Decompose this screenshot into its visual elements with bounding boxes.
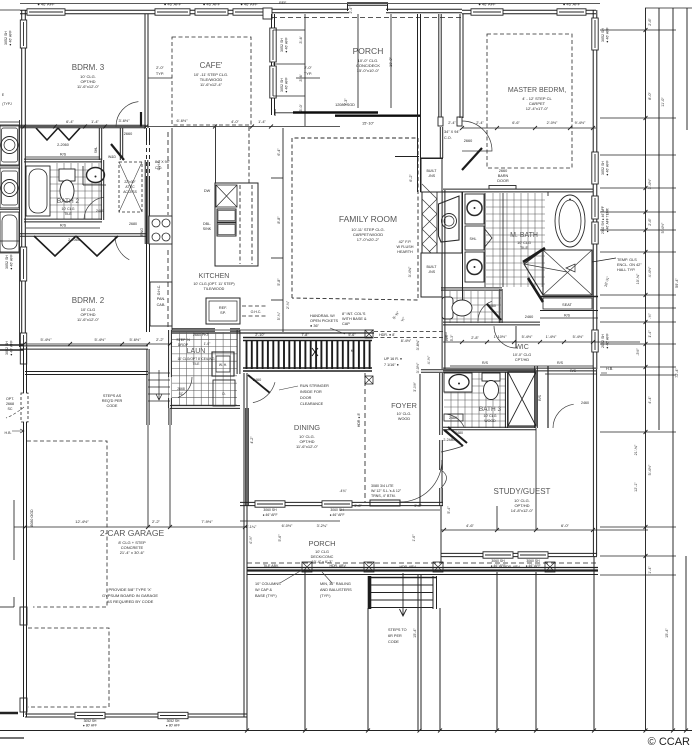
svg-text:15'-4": 15'-4" (413, 628, 417, 638)
svg-text:11'-6"x12'-0": 11'-6"x12'-0" (77, 84, 100, 89)
svg-text:6'-0½": 6'-0½" (282, 524, 293, 528)
room LAUN (172, 332, 237, 406)
hall door bdrm2 (115, 236, 129, 260)
svg-text:● 46' AFF: ● 46' AFF (10, 253, 14, 269)
svg-text:3'-4¾": 3'-4¾" (408, 266, 412, 277)
wall bdrm2 bottom (20, 346, 148, 349)
room BATH 2 (50, 163, 102, 219)
svg-text:© CCAR: © CCAR (648, 736, 690, 747)
header dashed above stair/bath hall (374, 331, 443, 333)
exterior wall right (593, 10, 597, 369)
svg-text:SHL: SHL (94, 147, 98, 154)
window cafe right 2 (270, 66, 276, 98)
svg-text:O.H.C.: O.H.C. (157, 160, 161, 170)
svg-text:● 36": ● 36" (310, 324, 320, 328)
wic door (494, 326, 516, 348)
svg-text:4'-4": 4'-4" (648, 396, 652, 404)
svg-text:DECK/CONC: DECK/CONC (311, 555, 334, 559)
wall kitchen left upper (147, 128, 150, 141)
svg-text:TILE: TILE (193, 362, 201, 366)
window right mbath 1 (592, 196, 598, 219)
svg-text:HANDRAIL W/: HANDRAIL W/ (310, 314, 336, 318)
fireplace (422, 192, 462, 253)
svg-text:-3½": -3½" (636, 348, 640, 356)
svg-text:6'-6½": 6'-6½" (177, 118, 189, 123)
svg-text:3052 SH: 3052 SH (280, 78, 284, 92)
range (149, 216, 172, 244)
svg-text:4'-½": 4'-½" (427, 355, 431, 364)
svg-text:● 46' AFF: ● 46' AFF (478, 2, 496, 7)
wall bath2 bottom (24, 219, 102, 222)
svg-text:10' CLG.: 10' CLG. (397, 412, 412, 416)
wall bath3 right (535, 366, 538, 428)
svg-text:10" COLUMNS: 10" COLUMNS (255, 582, 281, 586)
svg-text:RUN STRINGER: RUN STRINGER (300, 384, 329, 388)
svg-text:2'-0½": 2'-0½" (547, 121, 558, 125)
svg-text:WIC: WIC (515, 344, 529, 351)
stairwell walls to garage (147, 349, 149, 425)
porch interior dim (357, 14, 359, 108)
svg-text:12'-4"x17'-0": 12'-4"x17'-0" (526, 106, 549, 111)
svg-text:W FLUSH: W FLUSH (396, 245, 413, 249)
garage door jog (20, 607, 27, 625)
svg-text:OPT.: OPT. (6, 397, 14, 401)
wall cafe right (272, 14, 275, 115)
wall laundry bottom (170, 406, 240, 409)
svg-text:WITH BASE &: WITH BASE & (342, 317, 367, 321)
garage window 2 (158, 712, 188, 718)
svg-text:STEP 'N: STEP 'N (176, 338, 190, 342)
wall garage bottom (25, 714, 247, 717)
svg-text:10' CLG: 10' CLG (61, 207, 74, 211)
svg-text:CODE: CODE (388, 640, 399, 644)
vestibule walls (439, 14, 441, 117)
svg-text:2660: 2660 (464, 139, 472, 143)
wall dining left (246, 408, 249, 506)
svg-text:2-2060: 2-2060 (57, 143, 69, 147)
svg-text:21'-¾": 21'-¾" (634, 444, 638, 455)
exterior wall left (22, 10, 26, 347)
window right master (592, 18, 598, 50)
svg-text:-4¾": -4¾" (339, 489, 347, 493)
svg-text:● 46" AFF: ● 46" AFF (329, 513, 344, 517)
svg-text:15'-10": 15'-10" (362, 121, 375, 126)
bottom line ticks (245, 729, 249, 733)
wall laundry right (237, 330, 240, 374)
svg-text:3'-6½": 3'-6½" (119, 118, 131, 123)
mbath shower (543, 250, 592, 295)
svg-text:3'-2¾": 3'-2¾" (317, 524, 328, 528)
svg-text:STEPS TO: STEPS TO (388, 628, 407, 632)
svg-text:● 46' AFF: ● 46' AFF (606, 159, 610, 175)
svg-text:5'-3": 5'-3" (450, 334, 454, 341)
svg-text:5'-6½": 5'-6½" (130, 337, 142, 342)
svg-text:2'-4": 2'-4" (349, 6, 353, 14)
svg-text:8080 OGD: 8080 OGD (30, 509, 34, 527)
wall garage right (244, 373, 247, 717)
svg-text:SP.: SP. (220, 311, 226, 315)
porch steps (368, 576, 372, 609)
svg-text:3052 SH: 3052 SH (4, 31, 8, 45)
svg-text:11'-6"x12'-0": 11'-6"x12'-0" (296, 444, 319, 449)
svg-text:4'-2": 4'-2" (250, 436, 254, 444)
bath2 door (84, 197, 104, 219)
opt door garage (21, 393, 28, 422)
front wall dining (240, 502, 443, 505)
svg-text:SINK: SINK (203, 227, 212, 231)
svg-text:5'-4½": 5'-4½" (95, 337, 107, 342)
svg-text:ACCESS: ACCESS (123, 190, 137, 194)
svg-text:R/S: R/S (482, 361, 489, 365)
party wall line (19, 120, 21, 347)
porch right wall (418, 14, 421, 192)
svg-text:TRNS, 4" BTM.: TRNS, 4" BTM. (371, 494, 396, 498)
svg-text:● 46" AFF: ● 46" AFF (262, 513, 277, 517)
svg-text:UP 16 R. ●: UP 16 R. ● (384, 357, 402, 361)
porch front edge (247, 562, 598, 564)
sliding glass door family/porch (275, 112, 295, 114)
svg-text:HDR. ABV.: HDR. ABV. (400, 565, 417, 569)
svg-text:CAB.: CAB. (157, 303, 166, 307)
window left bdrm3 (20, 20, 26, 48)
svg-text:● 80' AFF: ● 80' AFF (166, 724, 180, 728)
svg-text:5'-¾": 5'-¾" (277, 311, 281, 320)
svg-text:5'-4½": 5'-4½" (661, 222, 665, 233)
svg-text:MIN, 36" RAILING: MIN, 36" RAILING (320, 582, 351, 586)
attic access (119, 162, 142, 212)
bath3 toilet (482, 373, 500, 381)
wall wic bottom (443, 368, 596, 371)
svg-text:2-2480: 2-2480 (443, 438, 454, 442)
svg-text:7'-8": 7'-8" (301, 333, 309, 337)
porch ceiling dashed (272, 17, 461, 19)
study window 2 (518, 552, 548, 558)
svg-text:O.H.C.: O.H.C. (251, 310, 262, 314)
kitchen island (215, 183, 258, 266)
svg-text:● 46' AFF: ● 46' AFF (37, 2, 55, 7)
svg-text:3'-0½": 3'-0½" (413, 381, 417, 391)
window 3050 SH (471, 9, 503, 15)
svg-text:PROVIDE 5/8" TYPE 'X': PROVIDE 5/8" TYPE 'X' (109, 587, 152, 592)
garage dashed ceiling lines (27, 441, 107, 607)
svg-text:2'-2": 2'-2" (156, 337, 164, 342)
master dashed ceiling (487, 34, 572, 168)
svg-text:1'-4": 1'-4" (91, 119, 99, 124)
built-ins lower (421, 253, 442, 297)
svg-text:REF.: REF. (279, 1, 287, 5)
svg-text:TILE ABV.: TILE ABV. (263, 564, 279, 568)
svg-text:R/S: R/S (564, 314, 571, 318)
svg-text:2480: 2480 (444, 332, 448, 340)
svg-text:21'-4" x 30'-6": 21'-4" x 30'-6" (120, 550, 145, 555)
svg-text:2'-0": 2'-0" (156, 65, 164, 70)
svg-text:3052 SH: 3052 SH (5, 255, 9, 269)
svg-text:DOOR: DOOR (497, 179, 509, 183)
wall bath2 top (24, 159, 102, 162)
svg-text:LAUN: LAUN (187, 348, 206, 355)
wall study bottom (441, 553, 597, 556)
svg-text:6'-6": 6'-6" (512, 121, 520, 125)
svg-text:DINING: DINING (294, 423, 320, 432)
svg-text:CLEARANCE: CLEARANCE (300, 402, 324, 406)
svg-text:● 46' AFF: ● 46' AFF (606, 332, 610, 348)
window cafe right 1 (270, 28, 276, 62)
svg-text:8'-8": 8'-8" (277, 216, 281, 224)
room BDRM 2 (26, 227, 100, 229)
svg-text:14'-8"x12'-0": 14'-8"x12'-0" (511, 508, 534, 513)
tub bath2 (26, 166, 50, 216)
svg-text:BUILT: BUILT (427, 265, 438, 269)
svg-text:SC: SC (8, 407, 13, 411)
dining window 2 (322, 501, 352, 507)
svg-text:15'-0"x10'-0": 15'-0"x10'-0" (357, 68, 380, 73)
window 3052 SH (195, 9, 228, 15)
svg-text:4'-0": 4'-0" (231, 119, 239, 124)
svg-text:INSIDE FOR: INSIDE FOR (300, 390, 322, 394)
svg-text:3'-0': 3'-0' (298, 104, 303, 111)
svg-text:FOYER: FOYER (391, 401, 417, 410)
svg-text:● 46' AFF: ● 46' AFF (563, 2, 581, 7)
svg-text:2052 SH ● 46' AFF: 2052 SH ● 46' AFF (601, 206, 605, 234)
svg-text:PORCH: PORCH (308, 539, 335, 548)
cafe dashed ceiling (172, 37, 251, 125)
svg-text:● 46' AFF: ● 46' AFF (10, 339, 14, 355)
svg-text:3060 SH: 3060 SH (526, 559, 540, 563)
svg-text:W. H.: W. H. (219, 363, 227, 367)
svg-text:W/ 12" S.L.'s & 12": W/ 12" S.L.'s & 12" (371, 489, 402, 493)
svg-text:PORCH: PORCH (353, 46, 384, 56)
toilet door (478, 301, 492, 321)
header dashed dining/foyer (364, 373, 366, 502)
svg-text:DBL.: DBL. (203, 222, 211, 226)
svg-text:2460: 2460 (581, 401, 589, 405)
svg-text:3052 SH: 3052 SH (280, 38, 284, 52)
svg-text:(TYP.): (TYP.) (320, 594, 331, 598)
svg-text:10' CLG.(OPT. 11' STEP): 10' CLG.(OPT. 11' STEP) (193, 282, 234, 286)
wall bdrm3/cafe (145, 14, 148, 128)
wall bdrm2 top (20, 234, 146, 236)
svg-text:72'-4": 72'-4" (675, 368, 679, 378)
svg-text:9'-4½": 9'-4½" (575, 121, 586, 125)
master entry door (462, 121, 492, 151)
svg-text:12'-1": 12'-1" (634, 482, 638, 492)
svg-text:1'-6": 1'-6" (412, 534, 416, 542)
svg-text:6'-2": 6'-2" (409, 174, 413, 182)
svg-text:AND BALUSTERS: AND BALUSTERS (320, 588, 352, 592)
svg-text:PAN.: PAN. (157, 297, 166, 301)
svg-text:12'-4½": 12'-4½" (75, 519, 89, 524)
wall garage top (25, 372, 148, 375)
seat (540, 296, 598, 298)
wall below mbath (443, 322, 540, 325)
svg-text:WOOD: WOOD (484, 419, 496, 423)
svg-text:DOOR: DOOR (300, 396, 312, 400)
svg-text:BARN: BARN (498, 174, 509, 178)
svg-text:FAMILY ROOM: FAMILY ROOM (339, 214, 397, 224)
svg-text:● 46' AFF TEMP.: ● 46' AFF TEMP. (606, 207, 610, 232)
svg-text:R/S: R/S (538, 394, 542, 400)
svg-text:2660 PKT: 2660 PKT (193, 333, 210, 337)
svg-text:11'-0": 11'-0" (661, 97, 665, 107)
svg-text:10'-0" CLG: 10'-0" CLG (513, 353, 532, 357)
svg-text:17'-0"x20'-2": 17'-0"x20'-2" (357, 237, 380, 242)
svg-text:2'-8": 2'-8" (471, 336, 479, 340)
svg-text:5'-4½": 5'-4½" (573, 335, 584, 339)
svg-text:HEARTH: HEARTH (397, 250, 413, 254)
svg-text:3052 SH: 3052 SH (601, 161, 605, 175)
svg-text:TEMP. GLS: TEMP. GLS (617, 258, 637, 262)
svg-text:1'-4": 1'-4" (648, 330, 652, 338)
window 3052 SH (233, 9, 265, 15)
barn door (489, 186, 516, 190)
svg-text:3052 SH: 3052 SH (167, 719, 180, 723)
svg-text:2660: 2660 (499, 169, 507, 173)
svg-text:TILE: TILE (520, 246, 528, 250)
WH (212, 352, 234, 376)
svg-text:DW: DW (204, 189, 211, 193)
window right mbath 2 (592, 222, 598, 244)
svg-text:CAP: CAP (342, 322, 350, 326)
exterior wall top (20, 10, 271, 13)
svg-text:1'-4": 1'-4" (648, 566, 652, 574)
svg-text:BUILT: BUILT (427, 169, 438, 173)
svg-text:3'-6': 3'-6' (298, 74, 303, 81)
door bdrm3 (116, 102, 138, 127)
closet right wall (99, 128, 101, 160)
svg-text:2'-4": 2'-4" (476, 121, 484, 125)
svg-text:BATH 3: BATH 3 (479, 406, 502, 413)
svg-text:3'-4½": 3'-4½" (648, 178, 652, 189)
svg-text:● 46' AFF: ● 46' AFF (164, 2, 182, 7)
svg-text:R/S: R/S (570, 369, 577, 373)
neighbor dryer (0, 168, 19, 208)
mbath vanity (462, 192, 464, 300)
window 3052 SH (155, 9, 190, 15)
svg-text:6'-4": 6'-4" (66, 119, 74, 124)
study window 1 (483, 552, 513, 558)
study corner doors (444, 430, 463, 446)
room FAMILY ROOM (292, 138, 418, 300)
svg-text:10' CLG: 10' CLG (483, 414, 496, 418)
window right wic (592, 330, 598, 352)
bath3 shower (508, 372, 536, 426)
svg-text:RNG: RNG (140, 228, 144, 236)
svg-text:-INS: -INS (428, 270, 436, 274)
closet door (553, 404, 574, 428)
svg-text:BDRM. 2: BDRM. 2 (72, 296, 105, 305)
wall foyer right upper (440, 373, 443, 435)
svg-text:2680: 2680 (129, 222, 137, 226)
svg-text:10' CLG/OPT 8' CEILING: 10' CLG/OPT 8' CEILING (177, 357, 215, 361)
svg-text:2660: 2660 (124, 132, 132, 136)
svg-text:8'-4½": 8'-4½" (401, 339, 412, 343)
wall foyer right lower (440, 488, 443, 506)
svg-text:6'-4": 6'-4" (277, 148, 281, 156)
svg-text:4'-½": 4'-½" (249, 535, 253, 544)
svg-text:KITCHEN: KITCHEN (199, 273, 230, 280)
svg-text:2660: 2660 (488, 304, 496, 308)
svg-text:R/S: R/S (60, 224, 67, 228)
svg-text:42" F.P.: 42" F.P. (399, 240, 412, 244)
porch bay bump (347, 3, 388, 5)
svg-text:R/S: R/S (557, 361, 564, 365)
svg-text:(TYPJ: (TYPJ (2, 102, 12, 106)
svg-text:3060 SH: 3060 SH (330, 508, 344, 512)
front door (370, 500, 400, 506)
svg-text:10' CLG: 10' CLG (517, 241, 531, 245)
svg-text:● 46' AFF: ● 46' AFF (240, 2, 258, 7)
svg-text:● 46' AFF: ● 46' AFF (203, 2, 221, 7)
mbath tub (555, 195, 585, 247)
stair edge reference line (419, 374, 421, 506)
svg-text:REQ'D PER: REQ'D PER (102, 399, 123, 403)
svg-text:2'-¾": 2'-¾" (286, 300, 290, 309)
svg-text:10'-0": 10'-0" (388, 56, 393, 67)
svg-text:15'-4": 15'-4" (665, 628, 669, 638)
svg-text:4'-6": 4'-6" (466, 523, 475, 528)
wall study right (593, 369, 596, 556)
cafe corner jog (263, 8, 272, 19)
svg-text:AS REQUIRED BY CODE: AS REQUIRED BY CODE (107, 599, 154, 604)
svg-text:H.B.: H.B. (5, 431, 12, 435)
svg-text:SHL: SHL (470, 237, 477, 241)
firebox (439, 196, 460, 242)
mbath tile (486, 193, 545, 287)
svg-text:2'-10": 2'-10" (255, 333, 265, 337)
svg-text:D.: D. (222, 392, 226, 396)
svg-text:5'-4": 5'-4" (447, 506, 451, 514)
svg-text:2'-6": 2'-6" (648, 18, 652, 26)
svg-text:8" INT. COL'S: 8" INT. COL'S (342, 312, 366, 316)
svg-text:22"x30": 22"x30" (124, 180, 136, 184)
wall garage left (24, 347, 27, 717)
svg-text:HALL TYP.: HALL TYP. (617, 268, 635, 272)
wall bdrm3 bottom (20, 125, 146, 127)
garage dim row (14, 526, 247, 528)
window 3052 SH (27, 9, 65, 15)
svg-text:● 80' AFF: ● 80' AFF (83, 724, 97, 728)
svg-text:ENCL. ON 42": ENCL. ON 42" (617, 263, 642, 267)
svg-text:6'-0": 6'-0" (561, 523, 570, 528)
svg-text:2'-2": 2'-2" (152, 519, 161, 524)
svg-text:3080 3/4 LITE: 3080 3/4 LITE (371, 484, 394, 488)
svg-text:3060 SH: 3060 SH (491, 559, 505, 563)
window left bdrm2 b (20, 333, 26, 364)
svg-text:SEAT: SEAT (562, 303, 572, 307)
top dimension line (20, 3, 600, 5)
svg-text:HDR. ABV.: HDR. ABV. (504, 565, 521, 569)
svg-text:3'-8¾": 3'-8¾" (416, 339, 420, 350)
svg-text:2480: 2480 (449, 416, 457, 420)
closet bdrm3 bifold doors 2-2060 (36, 128, 80, 140)
svg-text:BASE (TYP.): BASE (TYP.) (255, 594, 277, 598)
svg-text:5'-6": 5'-6" (348, 333, 356, 337)
closet right of bath3 (545, 373, 597, 375)
svg-text:MASTER BEDRM,: MASTER BEDRM, (508, 87, 566, 94)
svg-text:3060 SH: 3060 SH (263, 508, 277, 512)
svg-text:STEPS AS: STEPS AS (103, 394, 122, 398)
svg-text:1'-0": 1'-0" (204, 342, 212, 346)
svg-text:2-2060: 2-2060 (68, 238, 80, 242)
svg-text:5'-4½": 5'-4½" (41, 337, 53, 342)
svg-text:W&D: W&D (108, 155, 116, 159)
svg-text:OPEN PICKETS: OPEN PICKETS (310, 319, 339, 323)
right dimension lines (645, 8, 647, 730)
window 3052 SH (557, 9, 586, 15)
svg-text:2-CAR GARAGE: 2-CAR GARAGE (100, 528, 165, 538)
svg-text:TILE: TILE (64, 212, 72, 216)
svg-text:-¾": -¾" (648, 313, 652, 319)
